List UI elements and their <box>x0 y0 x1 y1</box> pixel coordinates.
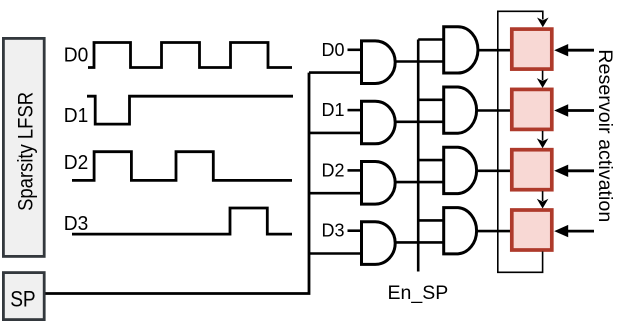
svg-text:D0: D0 <box>322 39 345 60</box>
svg-text:D2: D2 <box>64 152 89 174</box>
svg-text:SP: SP <box>10 287 36 312</box>
svg-text:D1: D1 <box>64 105 89 127</box>
svg-text:D1: D1 <box>322 99 345 120</box>
svg-text:D0: D0 <box>64 45 89 67</box>
svg-text:D3: D3 <box>64 213 89 235</box>
svg-text:D3: D3 <box>322 220 345 241</box>
svg-text:Reservoir activation: Reservoir activation <box>594 49 616 222</box>
svg-text:Sparsity LFSR: Sparsity LFSR <box>15 92 38 211</box>
svg-text:En_SP: En_SP <box>388 282 449 304</box>
svg-text:D2: D2 <box>322 159 345 180</box>
